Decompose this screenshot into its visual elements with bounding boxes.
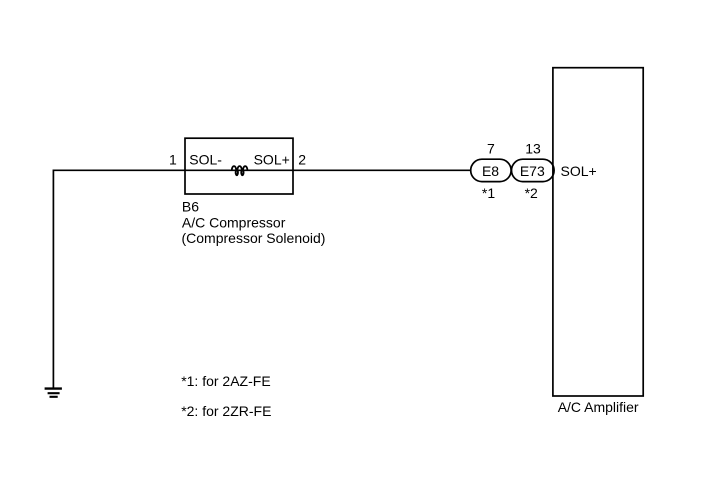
- svg-text:SOL+: SOL+: [561, 163, 597, 179]
- svg-text:*2: for 2ZR-FE: *2: for 2ZR-FE: [181, 403, 271, 419]
- svg-text:13: 13: [525, 141, 541, 157]
- svg-text:1: 1: [169, 152, 177, 168]
- svg-text:B6: B6: [182, 199, 199, 215]
- svg-text:(Compressor Solenoid): (Compressor Solenoid): [182, 230, 326, 246]
- svg-text:*1: for 2AZ-FE: *1: for 2AZ-FE: [181, 373, 270, 389]
- svg-text:7: 7: [487, 141, 495, 157]
- svg-text:SOL+: SOL+: [254, 152, 290, 168]
- svg-text:E73: E73: [520, 163, 545, 179]
- svg-text:*2: *2: [525, 185, 538, 201]
- svg-text:A/C Amplifier: A/C Amplifier: [558, 399, 639, 415]
- svg-text:A/C Compressor: A/C Compressor: [182, 214, 286, 230]
- svg-text:SOL-: SOL-: [189, 152, 222, 168]
- svg-text:*1: *1: [482, 185, 495, 201]
- svg-text:2: 2: [298, 152, 306, 168]
- svg-text:E8: E8: [482, 163, 499, 179]
